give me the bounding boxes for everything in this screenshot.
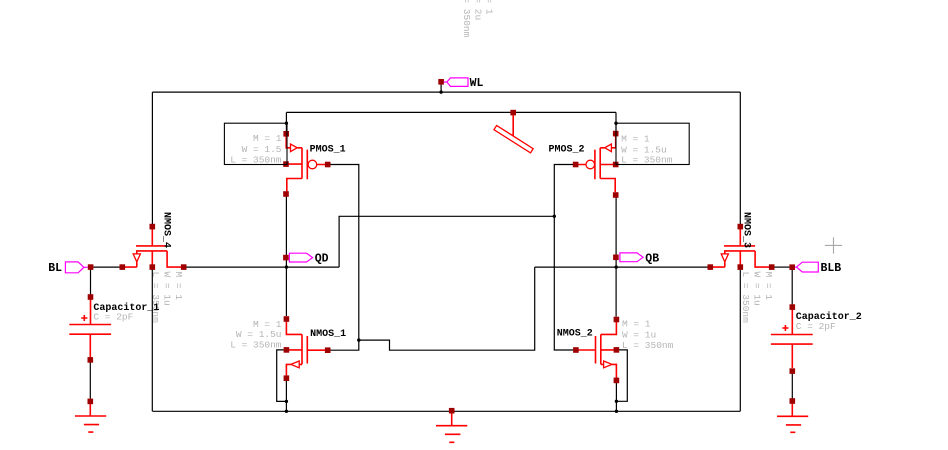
transistor PMOS_2 (573, 131, 619, 198)
svg-text:L = 350nm: L = 350nm (230, 154, 282, 165)
wire: WL right rail down to NMOS_3 gate (739, 92, 741, 224)
wire: cross-couple vertical down to NMOS_2 gate (554, 216, 573, 350)
value label NMOS_3 parameters (rotated) (740, 272, 774, 324)
node: junction NMOS_1 at bottom rail (285, 410, 288, 413)
wire: NMOS_1 bulk loop (277, 350, 287, 402)
svg-text:L = 350nm: L = 350nm (230, 340, 282, 351)
svg-text:NMOS_2: NMOS_2 (557, 329, 593, 340)
node: junction QD (285, 265, 288, 268)
wire: QB vertical PMOS_2 drain to NMOS_2 drain (615, 198, 617, 317)
transistor NMOS_3 (access, gate up) (708, 224, 775, 270)
svg-text:M = 1: M = 1 (622, 319, 651, 330)
port QB (613, 252, 659, 265)
wire: PMOS_1 gate to cross-couple vertical (331, 165, 359, 341)
parameter box PMOS_2 (616, 123, 689, 164)
wire: Capacitor_1 to ground (89, 363, 91, 399)
wire: QB cross-couple step to QB row (359, 267, 535, 350)
value label PMOS_2 parameters (621, 133, 673, 165)
svg-text:WL: WL (470, 77, 484, 90)
svg-text:M = 1: M = 1 (763, 272, 774, 301)
node: junction NMOS_2 at bottom rail (615, 410, 618, 413)
wire: Capacitor_2 to ground (791, 374, 793, 399)
ground G2 (center, on bottom rail) (436, 408, 467, 442)
capacitor C1 (Capacitor_1) (69, 294, 111, 363)
svg-text:C = 2pF: C = 2pF (93, 311, 133, 322)
value label PMOS_1 parameters (230, 133, 282, 165)
value label NMOS_2 parameters (622, 319, 674, 352)
svg-text:BLB: BLB (821, 262, 842, 275)
svg-text:L = 350nm: L = 350nm (622, 340, 674, 351)
wire: BLB drop to Capacitor_2 (791, 270, 793, 305)
wire: VDD stub to PMOS_2 source (615, 112, 617, 131)
value label top parameters (rotated, clipped) (461, 0, 495, 38)
svg-text:M = 1: M = 1 (253, 133, 282, 144)
wire: NMOS_3 drain to BLB (775, 266, 790, 268)
port BLB (789, 262, 841, 275)
svg-text:W = 1.5: W = 1.5 (242, 144, 282, 155)
transistor NMOS_2 (573, 317, 619, 384)
wire: QD vertical PMOS_1 drain to NMOS_1 drain (285, 197, 287, 317)
cell-center cross marker (825, 237, 842, 253)
wire: QB row (535, 266, 708, 268)
node: junction NMOS_2 source/bulk (615, 400, 618, 403)
wire: WL port stub (440, 84, 442, 92)
node: junction NMOS_1 source/bulk (285, 400, 288, 403)
svg-text:L = 350nm: L = 350nm (621, 154, 673, 165)
transistor NMOS_1 (284, 316, 331, 381)
wire: WL left rail down to NMOS_4 gate (151, 92, 153, 224)
wire: NMOS_1 source drop to bottom rail (285, 381, 287, 411)
port QD (283, 253, 329, 266)
wire: NMOS_4 bulk drop to bottom rail (151, 270, 153, 412)
svg-text:W = 1u: W = 1u (752, 272, 763, 306)
wire: NMOS_1 gate stub (331, 340, 359, 350)
node: junction QB (615, 265, 618, 268)
ground G3 (below Capacitor_2) (777, 398, 808, 432)
ground G1 (below Capacitor_1) (75, 399, 106, 433)
off-page slash symbol on VDD rail (494, 110, 533, 153)
svg-text:NMOS_4: NMOS_4 (161, 212, 172, 248)
transistor PMOS_1 (283, 131, 330, 197)
svg-text:W = 2u: W = 2u (473, 0, 484, 20)
value label NMOS_1 parameters (230, 319, 282, 351)
parameter box PMOS_1 (224, 123, 287, 164)
svg-text:C = 2pF: C = 2pF (796, 321, 836, 332)
node: junction QD cross-couple (553, 215, 556, 218)
wire: bottom rail (152, 410, 740, 412)
node: junction QB cross-couple (357, 338, 360, 341)
svg-text:PMOS_2: PMOS_2 (549, 145, 585, 156)
svg-text:W = 1.5u: W = 1.5u (236, 329, 282, 340)
capacitor C2 (Capacitor_2) (771, 304, 813, 374)
wire: NMOS_2 bulk loop (616, 350, 627, 401)
svg-text:NMOS_3: NMOS_3 (741, 212, 752, 248)
wire: VDD rail between PMOS_1 and PMOS_2 (286, 111, 616, 113)
svg-text:W = 1u: W = 1u (622, 329, 656, 340)
node: WL junction on top rail (439, 90, 442, 93)
svg-text:L = 350nm: L = 350nm (740, 272, 751, 324)
wire: QD row (186, 266, 339, 268)
node: junction PMOS_2 box corner (614, 122, 617, 125)
wire: BL drop to Capacitor_1 (90, 270, 92, 295)
node: junction PMOS_1 box corner (285, 122, 288, 125)
svg-text:M = 1: M = 1 (621, 133, 650, 144)
svg-text:BL: BL (48, 262, 62, 275)
wire: VDD stub to PMOS_1 source (285, 112, 287, 131)
port WL (438, 77, 483, 90)
wire: QD horn up and over to PMOS_2 gate line (339, 216, 554, 267)
svg-text:W = 1u: W = 1u (162, 272, 173, 306)
wire: NMOS_2 source drop to bottom rail (615, 383, 617, 411)
value label NMOS_4 parameters (rotated) (150, 272, 184, 324)
svg-text:L = 350nm: L = 350nm (150, 272, 161, 324)
svg-text:PMOS_1: PMOS_1 (310, 144, 346, 155)
svg-text:L = 350nm: L = 350nm (461, 0, 472, 38)
port BL (48, 262, 93, 275)
svg-text:NMOS_1: NMOS_1 (310, 329, 346, 340)
svg-text:QD: QD (315, 253, 329, 266)
svg-text:M = 1: M = 1 (484, 0, 495, 15)
wire: WL top rail (152, 91, 740, 93)
wire: BL to NMOS_4 source (93, 266, 119, 268)
wire: PMOS_2 gate to cross-couple vertical (554, 165, 573, 217)
svg-text:M = 1: M = 1 (173, 272, 184, 301)
transistor NMOS_4 (access, gate up) (120, 224, 187, 270)
wire: NMOS_3 bulk drop to bottom rail (739, 270, 741, 412)
svg-text:QB: QB (645, 252, 659, 265)
